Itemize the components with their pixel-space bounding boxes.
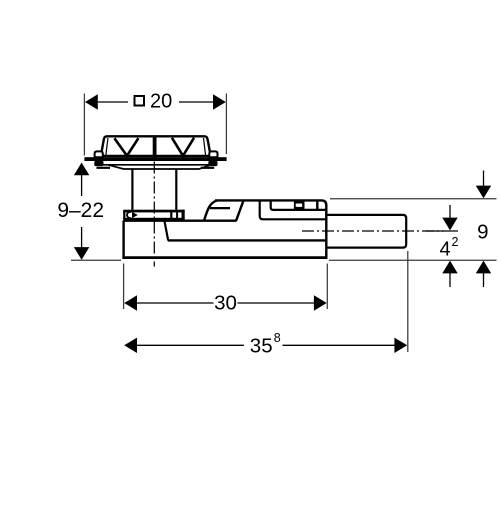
svg-text:20: 20 (150, 91, 172, 113)
grate right bolt cap (209, 151, 217, 157)
collar top bar (123, 210, 184, 213)
roof inner contour B (271, 200, 326, 210)
svg-text:4: 4 (440, 238, 451, 260)
svg-text:9–22: 9–22 (57, 199, 104, 222)
dimension square-20 right arrow (179, 101, 213, 103)
grate bowl top line (103, 164, 214, 166)
drain vertical pipe right wall (175, 169, 177, 210)
dimension 35.8 right arrow (283, 344, 395, 346)
dimension 9 top extension line (330, 198, 497, 200)
svg-text:8: 8 (274, 331, 281, 345)
trap dome right diagonal (236, 201, 244, 221)
grate right foot line (201, 167, 215, 169)
collar bottom bar (123, 218, 184, 221)
dimension 30 right extension line (326, 264, 328, 310)
dimension square-20 left arrow (85, 94, 98, 109)
dimension square-20 right extension line (225, 94, 227, 155)
dimension 35.8 right extension line (407, 251, 409, 352)
grate truss V right (172, 138, 194, 156)
roof black slot box (294, 200, 305, 210)
roof slot white window (296, 204, 303, 207)
grate anchor flange bar (84, 157, 226, 161)
dimension 4.2 bottom arrow (442, 261, 457, 274)
dimension 9 bottom arrow (476, 261, 491, 274)
body top left line (124, 219, 237, 221)
channel bottom line (168, 239, 326, 241)
collar arrow detail (132, 212, 138, 218)
dimension 35.8 left arrow (124, 338, 137, 353)
drain vertical pipe left wall (131, 169, 133, 210)
body shelf contour (260, 200, 327, 219)
dimension 30 left extension line (123, 264, 125, 310)
trap dome left curve (204, 201, 217, 221)
dimension square-20 square symbol (135, 96, 145, 106)
body bottom edge (122, 256, 327, 259)
body roof and right edge (215, 200, 326, 257)
grate left bolt cap (95, 151, 103, 157)
grate frame inner line left (106, 138, 108, 156)
dimension 9-22 top arrow (74, 163, 89, 176)
collar right divider (170, 212, 172, 219)
svg-text:2: 2 (452, 235, 459, 249)
trap wall diagonal (165, 221, 169, 240)
collar right end cap (182, 210, 185, 221)
collar circle detail (127, 212, 131, 218)
grate frame inner line right (204, 138, 206, 156)
dimension 4.2 top arrow (449, 205, 451, 218)
grate center post (153, 137, 157, 156)
dimension 30 left arrow (124, 295, 137, 310)
collar left cap (123, 211, 125, 219)
body left edge (122, 221, 124, 259)
grate bowl trapezoid (108, 165, 210, 169)
grate right nut (208, 161, 217, 166)
horizontal centerline (302, 230, 444, 232)
grate left nut (94, 161, 103, 166)
roof divider (316, 200, 318, 210)
outlet pipe (326, 215, 406, 248)
vertical centerline (153, 142, 155, 267)
svg-text:35: 35 (250, 334, 273, 357)
svg-text:30: 30 (214, 292, 237, 315)
dimension square-20 left extension line (83, 94, 85, 156)
bottom extension line right (329, 259, 497, 261)
grate truss V left (114, 138, 138, 156)
dimension 9-22 bottom extension line (71, 259, 121, 261)
dimension 9 top arrow (483, 171, 485, 188)
dimension 9-22 bottom arrow (81, 227, 83, 248)
dimension 4.2 reference line (426, 230, 458, 232)
svg-text:9: 9 (477, 220, 488, 243)
dimension 30 right arrow (238, 302, 315, 304)
trap dome inner line (210, 207, 230, 209)
grate left foot line (97, 167, 111, 169)
grate frame trapezoid (101, 136, 211, 156)
collar right black divider (176, 212, 178, 219)
